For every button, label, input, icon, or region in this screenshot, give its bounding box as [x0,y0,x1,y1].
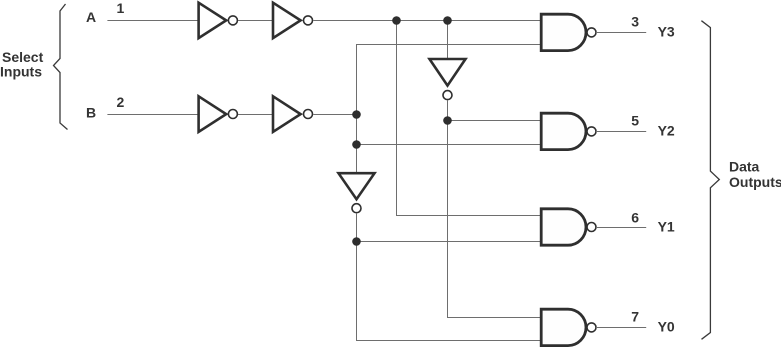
svg-text:Data: Data [729,158,760,174]
junction A/Y1 bus [392,16,401,25]
svg-text:7: 7 [631,309,639,325]
svg-text:Inputs: Inputs [0,64,42,80]
NAND gate G2 body [541,113,586,149]
label Data Outputs [729,158,781,190]
junction B-bar/Y1 [352,237,361,246]
inverter U1A bubble [228,16,237,25]
inverter U2A bubble [304,16,313,25]
wire between inverters A [238,20,272,22]
junction B/Y2 [352,140,361,149]
wire A-bar tee to NAND Y2 upper input [447,120,541,122]
inverter U1A triangle [199,3,227,38]
svg-text:2: 2 [117,94,125,110]
svg-text:Outputs: Outputs [729,174,781,190]
NAND gate G1 body [541,209,586,245]
right brace (Data Outputs) [701,21,719,340]
wire A-bar to NAND Y0 upper input [447,317,541,319]
svg-text:A: A [86,9,96,25]
inverter U3 bubble [352,204,361,213]
NAND gate G1 bubble [587,223,596,232]
junction A-bar/Y2 [443,116,452,125]
wire output Y0 [596,327,646,329]
svg-text:6: 6 [631,209,639,225]
svg-text:Y1: Y1 [658,218,675,234]
inverter U1B triangle [199,96,227,132]
wire vertical bus A-bar lower [447,100,449,318]
wire B buffered to vertical bus [313,114,356,116]
svg-text:5: 5 [631,113,639,129]
NAND gate G0 bubble [587,323,596,332]
wire vertical bus B upper [356,45,358,173]
wire output Y1 [596,227,646,229]
wire B bus tee to NAND Y2 lower input [356,144,541,146]
wire vertical bus A upper to inverter U4 [447,20,449,58]
wire A buffered to NAND Y3 [313,20,540,22]
inverter U4 (A bar, pointing down) triangle [430,59,466,86]
NAND gate G2 bubble [587,127,596,136]
junction B input [352,110,361,119]
svg-text:Y3: Y3 [658,24,675,40]
wire B-bar to NAND Y0 lower input [356,340,541,342]
wire vertical bus A to Y1 [397,20,541,215]
svg-text:Y0: Y0 [658,319,675,335]
svg-text:1: 1 [117,0,125,16]
inverter U2A triangle [273,3,301,38]
svg-text:Select: Select [2,49,44,65]
svg-text:Y2: Y2 [658,123,675,139]
wire B input [107,114,197,116]
left brace (Select Inputs) [54,4,68,130]
inverter U2B triangle [273,96,301,132]
wire between inverters B [238,114,272,116]
wire A input [107,20,197,22]
label Select Inputs [0,49,44,80]
wire B bus to NAND Y3 lower input [356,44,541,46]
wire output Y2 [596,131,646,133]
inverter U4 bubble [443,91,452,100]
inverter U3 (B bar, pointing down) triangle [339,173,375,199]
inverter U1B bubble [228,110,237,119]
wire B-bar tee to NAND Y1 lower input [356,241,541,243]
wire output Y3 [596,32,646,34]
NAND gate G3 body [541,14,586,50]
junction A/U4 bus [443,16,452,25]
NAND gate G0 body [541,309,586,345]
wire vertical bus B-bar lower [356,213,358,341]
svg-text:3: 3 [631,14,639,30]
svg-text:B: B [86,105,96,121]
inverter U2B bubble [304,110,313,119]
NAND gate G3 bubble [587,28,596,37]
